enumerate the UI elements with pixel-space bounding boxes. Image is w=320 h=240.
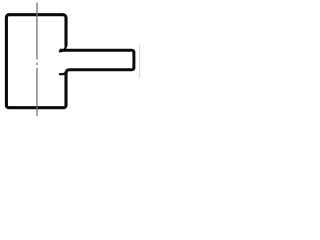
centerline dot — [36, 63, 38, 65]
stem outline (right tab of section profile) — [60, 50, 134, 70]
run-out flare at stem bottom junction — [60, 72, 66, 74]
centerline lower dash — [36, 68, 38, 116]
centerline upper dash — [36, 3, 38, 60]
flange outline (left block of section profile) — [6, 15, 68, 108]
faint edge line right of stem — [139, 45, 141, 78]
run-out flare at stem top junction — [60, 46, 66, 52]
